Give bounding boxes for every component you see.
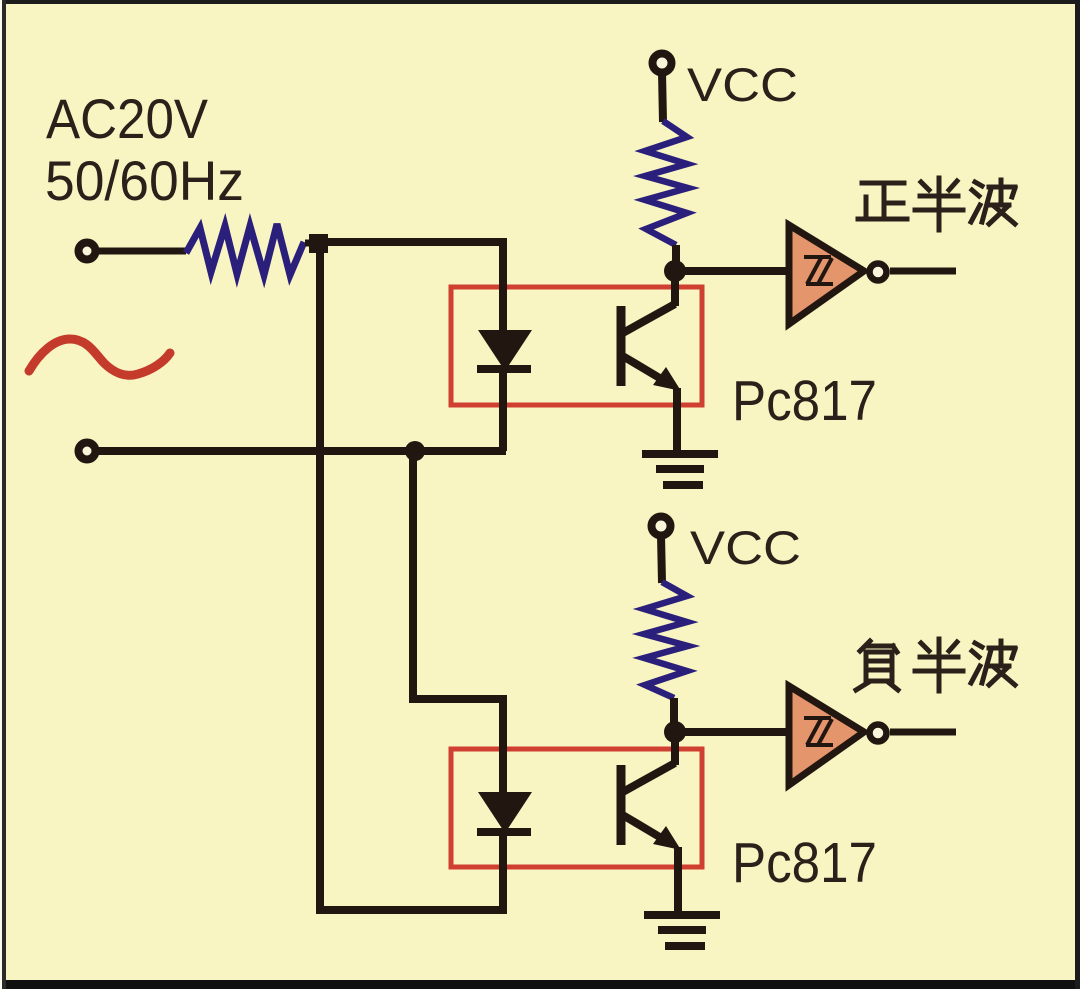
ground GND2: [644, 911, 720, 950]
svg-text:Pc817: Pc817: [732, 369, 877, 433]
ground GND1: [642, 450, 718, 489]
resistor R2: [645, 121, 688, 245]
resistor R1: [186, 224, 304, 275]
terminal VCC1: [653, 54, 672, 73]
AC source sine symbol: [29, 339, 170, 375]
LED D2 anode wire: [499, 699, 507, 794]
svg-text:VCC: VCC: [690, 521, 801, 574]
wire inverter U2 output: [890, 268, 956, 275]
svg-text:50/60Hz: 50/60Hz: [45, 149, 244, 212]
svg-text:Pc817: Pc817: [732, 831, 877, 895]
LED D1: [478, 330, 532, 371]
node C junction: [664, 260, 686, 282]
terminal upper AC input: [79, 243, 96, 260]
wire node B down and right to D2 anode: [413, 451, 507, 699]
svg-text:VCC: VCC: [687, 58, 798, 111]
inverter U4: [789, 686, 887, 785]
wire node A down to bottom rail: [316, 243, 324, 914]
optocoupler U1 box: [451, 287, 702, 405]
wire node A to D1 anode: [318, 238, 507, 246]
terminal VCC2: [652, 517, 671, 536]
label negative half-wave: [856, 639, 1015, 691]
label positive half-wave: [858, 178, 1015, 230]
LED D2 cathode wire: [499, 832, 507, 914]
LED D1 anode wire: [499, 242, 507, 332]
wire R2 to node C: [672, 245, 680, 271]
node D junction: [664, 721, 686, 743]
optocoupler U3 box: [451, 749, 702, 867]
wire lower AC terminal to D1 cathode: [97, 447, 506, 455]
node A junction: [309, 234, 328, 253]
wire VCC2 to R3: [661, 535, 662, 583]
wire R1 to node A: [305, 240, 318, 247]
phototransistor Q2: [621, 732, 681, 912]
node B junction: [405, 441, 425, 461]
wire inverter U4 output: [890, 729, 956, 736]
LED D1 cathode wire: [499, 370, 507, 451]
wire node C to inverter U2: [675, 267, 790, 275]
phototransistor Q1: [621, 271, 681, 452]
bottom rail wire to D2 cathode: [320, 906, 503, 914]
wire VCC1 to R2: [662, 72, 663, 122]
resistor R3: [644, 582, 688, 698]
wire upper AC terminal to R1: [97, 248, 186, 255]
svg-text:AC20V: AC20V: [46, 87, 209, 150]
LED D2: [478, 792, 532, 833]
inverter U2: [789, 225, 887, 324]
wire R3 to node D: [670, 698, 678, 732]
terminal lower AC input: [79, 443, 96, 460]
wire node D to inverter U4: [675, 728, 790, 736]
label AC20V 50/60Hz: [45, 87, 244, 212]
